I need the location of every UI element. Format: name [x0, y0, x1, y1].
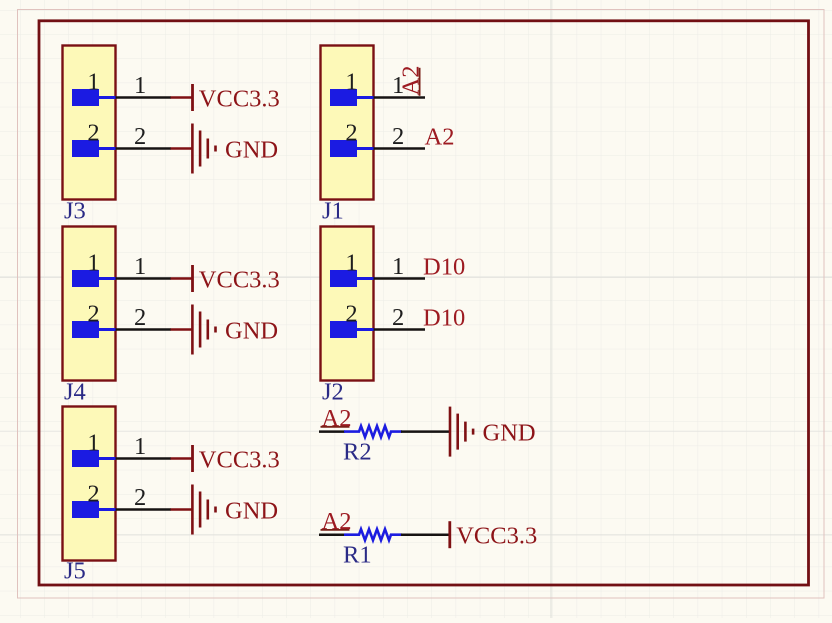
wire J2 pin 1 (net D10) — [374, 277, 426, 280]
connector J1 pin 1 pad — [330, 89, 357, 106]
svg-text:1: 1 — [345, 250, 357, 277]
wire J5 pin 1 to VCC3.3 — [116, 457, 172, 460]
connector J3 body — [63, 46, 116, 200]
connector J4 pin 1 pad — [72, 270, 99, 287]
svg-text:D10: D10 — [423, 305, 465, 332]
power port VCC3.3 at R1 — [450, 521, 537, 550]
svg-text:J2: J2 — [322, 379, 344, 406]
svg-text:VCC3.3: VCC3.3 — [199, 447, 280, 474]
connector J4 pin 2 pad — [72, 321, 99, 338]
connector J4 pin 2 stub — [99, 328, 116, 331]
wire J3 pin 1 to VCC3.3 — [116, 96, 172, 99]
wire J4 pin 2 to GND — [116, 328, 172, 331]
svg-text:GND: GND — [225, 318, 278, 345]
svg-text:2: 2 — [134, 304, 146, 331]
connector J5 pin 2 pad — [72, 501, 99, 518]
connector J3 pin 2 pad — [72, 140, 99, 157]
svg-text:A2: A2 — [322, 405, 352, 432]
connector J1 pin 2 stub — [357, 147, 374, 150]
connector J3 pin 2 stub — [99, 147, 116, 150]
svg-text:1: 1 — [134, 72, 146, 99]
power port VCC3.3 at J5 pin 1 — [171, 445, 280, 474]
svg-text:1: 1 — [87, 250, 99, 277]
wire J4 pin 1 to VCC3.3 — [116, 277, 172, 280]
connector J2 pin 1 stub — [357, 277, 374, 280]
svg-text:D10: D10 — [423, 254, 465, 281]
net label A2 (vertical, J1 pin 1) — [397, 66, 424, 96]
connector J5 body — [63, 407, 116, 561]
svg-text:2: 2 — [392, 304, 404, 331]
connector J2 body — [321, 227, 374, 381]
power port GND at J4 pin 2 — [171, 305, 279, 355]
power port VCC3.3 at J3 pin 1 — [171, 84, 280, 113]
svg-text:J4: J4 — [64, 379, 86, 406]
wire J1 pin 2 (net A2) — [374, 147, 426, 150]
connector J1 pin 2 pad — [330, 140, 357, 157]
connector J4 body — [63, 227, 116, 381]
connector J3 pin 1 pad — [72, 89, 99, 106]
svg-text:1: 1 — [345, 69, 357, 96]
wire R2 to GND — [401, 430, 450, 433]
svg-text:J1: J1 — [322, 198, 344, 225]
connector J1 body — [321, 46, 374, 200]
svg-text:J3: J3 — [64, 198, 86, 225]
svg-text:VCC3.3: VCC3.3 — [199, 267, 280, 294]
net label A2 (R1 row) — [321, 508, 352, 535]
svg-text:2: 2 — [134, 123, 146, 150]
connector J5 pin 2 stub — [99, 508, 116, 511]
connector J2 pin 2 stub — [357, 328, 374, 331]
wire J1 pin 1 (net A2) — [374, 96, 426, 99]
wire J2 pin 2 (net D10) — [374, 328, 426, 331]
wire J3 pin 2 to GND — [116, 147, 172, 150]
svg-text:1: 1 — [392, 253, 404, 280]
resistor R2 — [344, 426, 402, 437]
connector J1 pin 1 stub — [357, 96, 374, 99]
net label A2 (R2 row) — [321, 405, 352, 432]
svg-text:1: 1 — [134, 433, 146, 460]
svg-text:R1: R1 — [343, 542, 372, 569]
power port GND at J5 pin 2 — [171, 485, 279, 535]
wire R1 to VCC3.3 — [401, 533, 450, 536]
svg-text:2: 2 — [87, 120, 99, 147]
svg-text:2: 2 — [345, 120, 357, 147]
svg-text:2: 2 — [392, 123, 404, 150]
svg-text:1: 1 — [134, 253, 146, 280]
svg-text:1: 1 — [87, 430, 99, 457]
connector J3 pin 1 stub — [99, 96, 116, 99]
connector J4 pin 1 stub — [99, 277, 116, 280]
svg-text:VCC3.3: VCC3.3 — [199, 86, 280, 113]
svg-text:A2: A2 — [322, 508, 352, 535]
resistor R1 — [344, 529, 402, 540]
svg-text:R2: R2 — [343, 439, 372, 466]
wire A2 to R2 — [319, 430, 345, 433]
connector J2 pin 2 pad — [330, 321, 357, 338]
svg-text:GND: GND — [225, 137, 278, 164]
svg-text:2: 2 — [134, 484, 146, 511]
connector J5 pin 1 pad — [72, 450, 99, 467]
power port VCC3.3 at J4 pin 1 — [171, 265, 280, 294]
svg-text:GND: GND — [483, 420, 536, 447]
svg-text:J5: J5 — [64, 558, 86, 585]
connector J5 pin 1 stub — [99, 457, 116, 460]
connector J2 pin 1 pad — [330, 270, 357, 287]
svg-text:A2: A2 — [425, 124, 455, 151]
svg-text:2: 2 — [87, 481, 99, 508]
wire J5 pin 2 to GND — [116, 508, 172, 511]
svg-text:GND: GND — [225, 498, 278, 525]
svg-text:1: 1 — [87, 69, 99, 96]
svg-text:VCC3.3: VCC3.3 — [456, 523, 537, 550]
svg-text:2: 2 — [345, 301, 357, 328]
power port GND at R2 — [450, 407, 536, 457]
power port GND at J3 pin 2 — [171, 124, 279, 174]
wire A2 to R1 — [319, 533, 345, 536]
svg-text:2: 2 — [87, 301, 99, 328]
